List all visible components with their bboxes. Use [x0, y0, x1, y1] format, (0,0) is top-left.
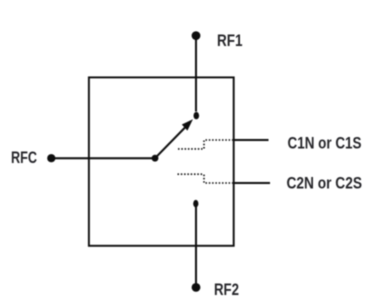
wire control 2 stub [234, 182, 271, 184]
switch body box [89, 77, 234, 245]
svg-text:RF2: RF2 [214, 280, 239, 299]
node RF2 throw contact [193, 200, 198, 207]
wire RF1 [195, 37, 197, 112]
svg-text:RFC: RFC [11, 148, 37, 167]
wire RF2 [195, 206, 197, 287]
wire control 1 stub [234, 139, 269, 141]
control path 2 dotted [178, 174, 234, 183]
node RF1 throw contact [194, 112, 200, 119]
terminal RFC dot [47, 154, 55, 162]
terminal RF1 dot [192, 31, 201, 40]
control path 1 dotted [178, 140, 234, 149]
node switch pivot [152, 155, 159, 162]
svg-text:RF1: RF1 [217, 31, 243, 50]
terminal RF2 dot [192, 283, 201, 292]
switch arm wire [155, 127, 186, 159]
svg-text:C1N or C1S: C1N or C1S [288, 133, 362, 152]
svg-text:C2N or C2S: C2N or C2S [287, 173, 363, 192]
switch arrowhead [182, 119, 193, 130]
wire RFC [52, 157, 155, 159]
